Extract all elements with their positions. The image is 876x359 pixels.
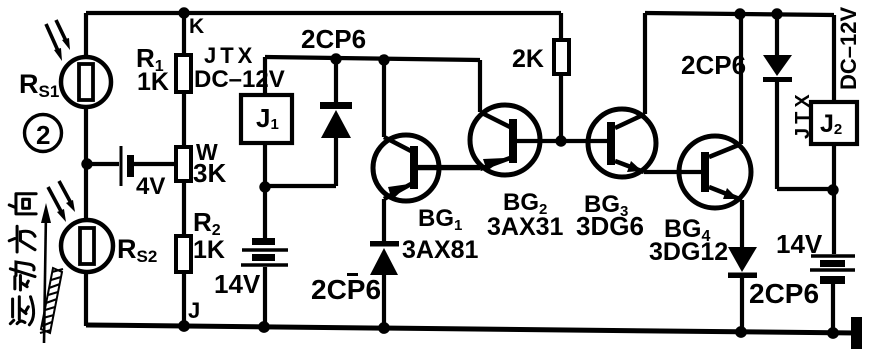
svg-text:3AX81: 3AX81 bbox=[402, 236, 479, 264]
svg-text:3AX31: 3AX31 bbox=[487, 213, 564, 241]
svg-text:2CP6: 2CP6 bbox=[749, 278, 819, 309]
svg-text:2CP6: 2CP6 bbox=[301, 24, 366, 54]
svg-text:DC–12V: DC–12V bbox=[836, 7, 861, 90]
svg-text:2CP6: 2CP6 bbox=[311, 274, 381, 305]
svg-text:J: J bbox=[188, 298, 200, 323]
svg-text:14V: 14V bbox=[776, 229, 823, 259]
svg-text:2CP6: 2CP6 bbox=[681, 50, 746, 80]
svg-text:14V: 14V bbox=[214, 269, 261, 299]
svg-text:1K: 1K bbox=[193, 236, 225, 264]
svg-text:K: K bbox=[189, 15, 204, 38]
svg-text:JTX: JTX bbox=[792, 90, 814, 139]
svg-text:2: 2 bbox=[36, 120, 50, 150]
svg-text:1K: 1K bbox=[137, 68, 169, 96]
svg-text:3DG6: 3DG6 bbox=[576, 211, 644, 241]
svg-text:DC–12V: DC–12V bbox=[194, 66, 285, 93]
svg-text:2K: 2K bbox=[512, 45, 544, 73]
svg-text:3K: 3K bbox=[193, 158, 226, 188]
svg-text:4V: 4V bbox=[136, 173, 165, 200]
svg-text:3DG12: 3DG12 bbox=[649, 238, 728, 266]
svg-text:JTX: JTX bbox=[204, 43, 256, 68]
